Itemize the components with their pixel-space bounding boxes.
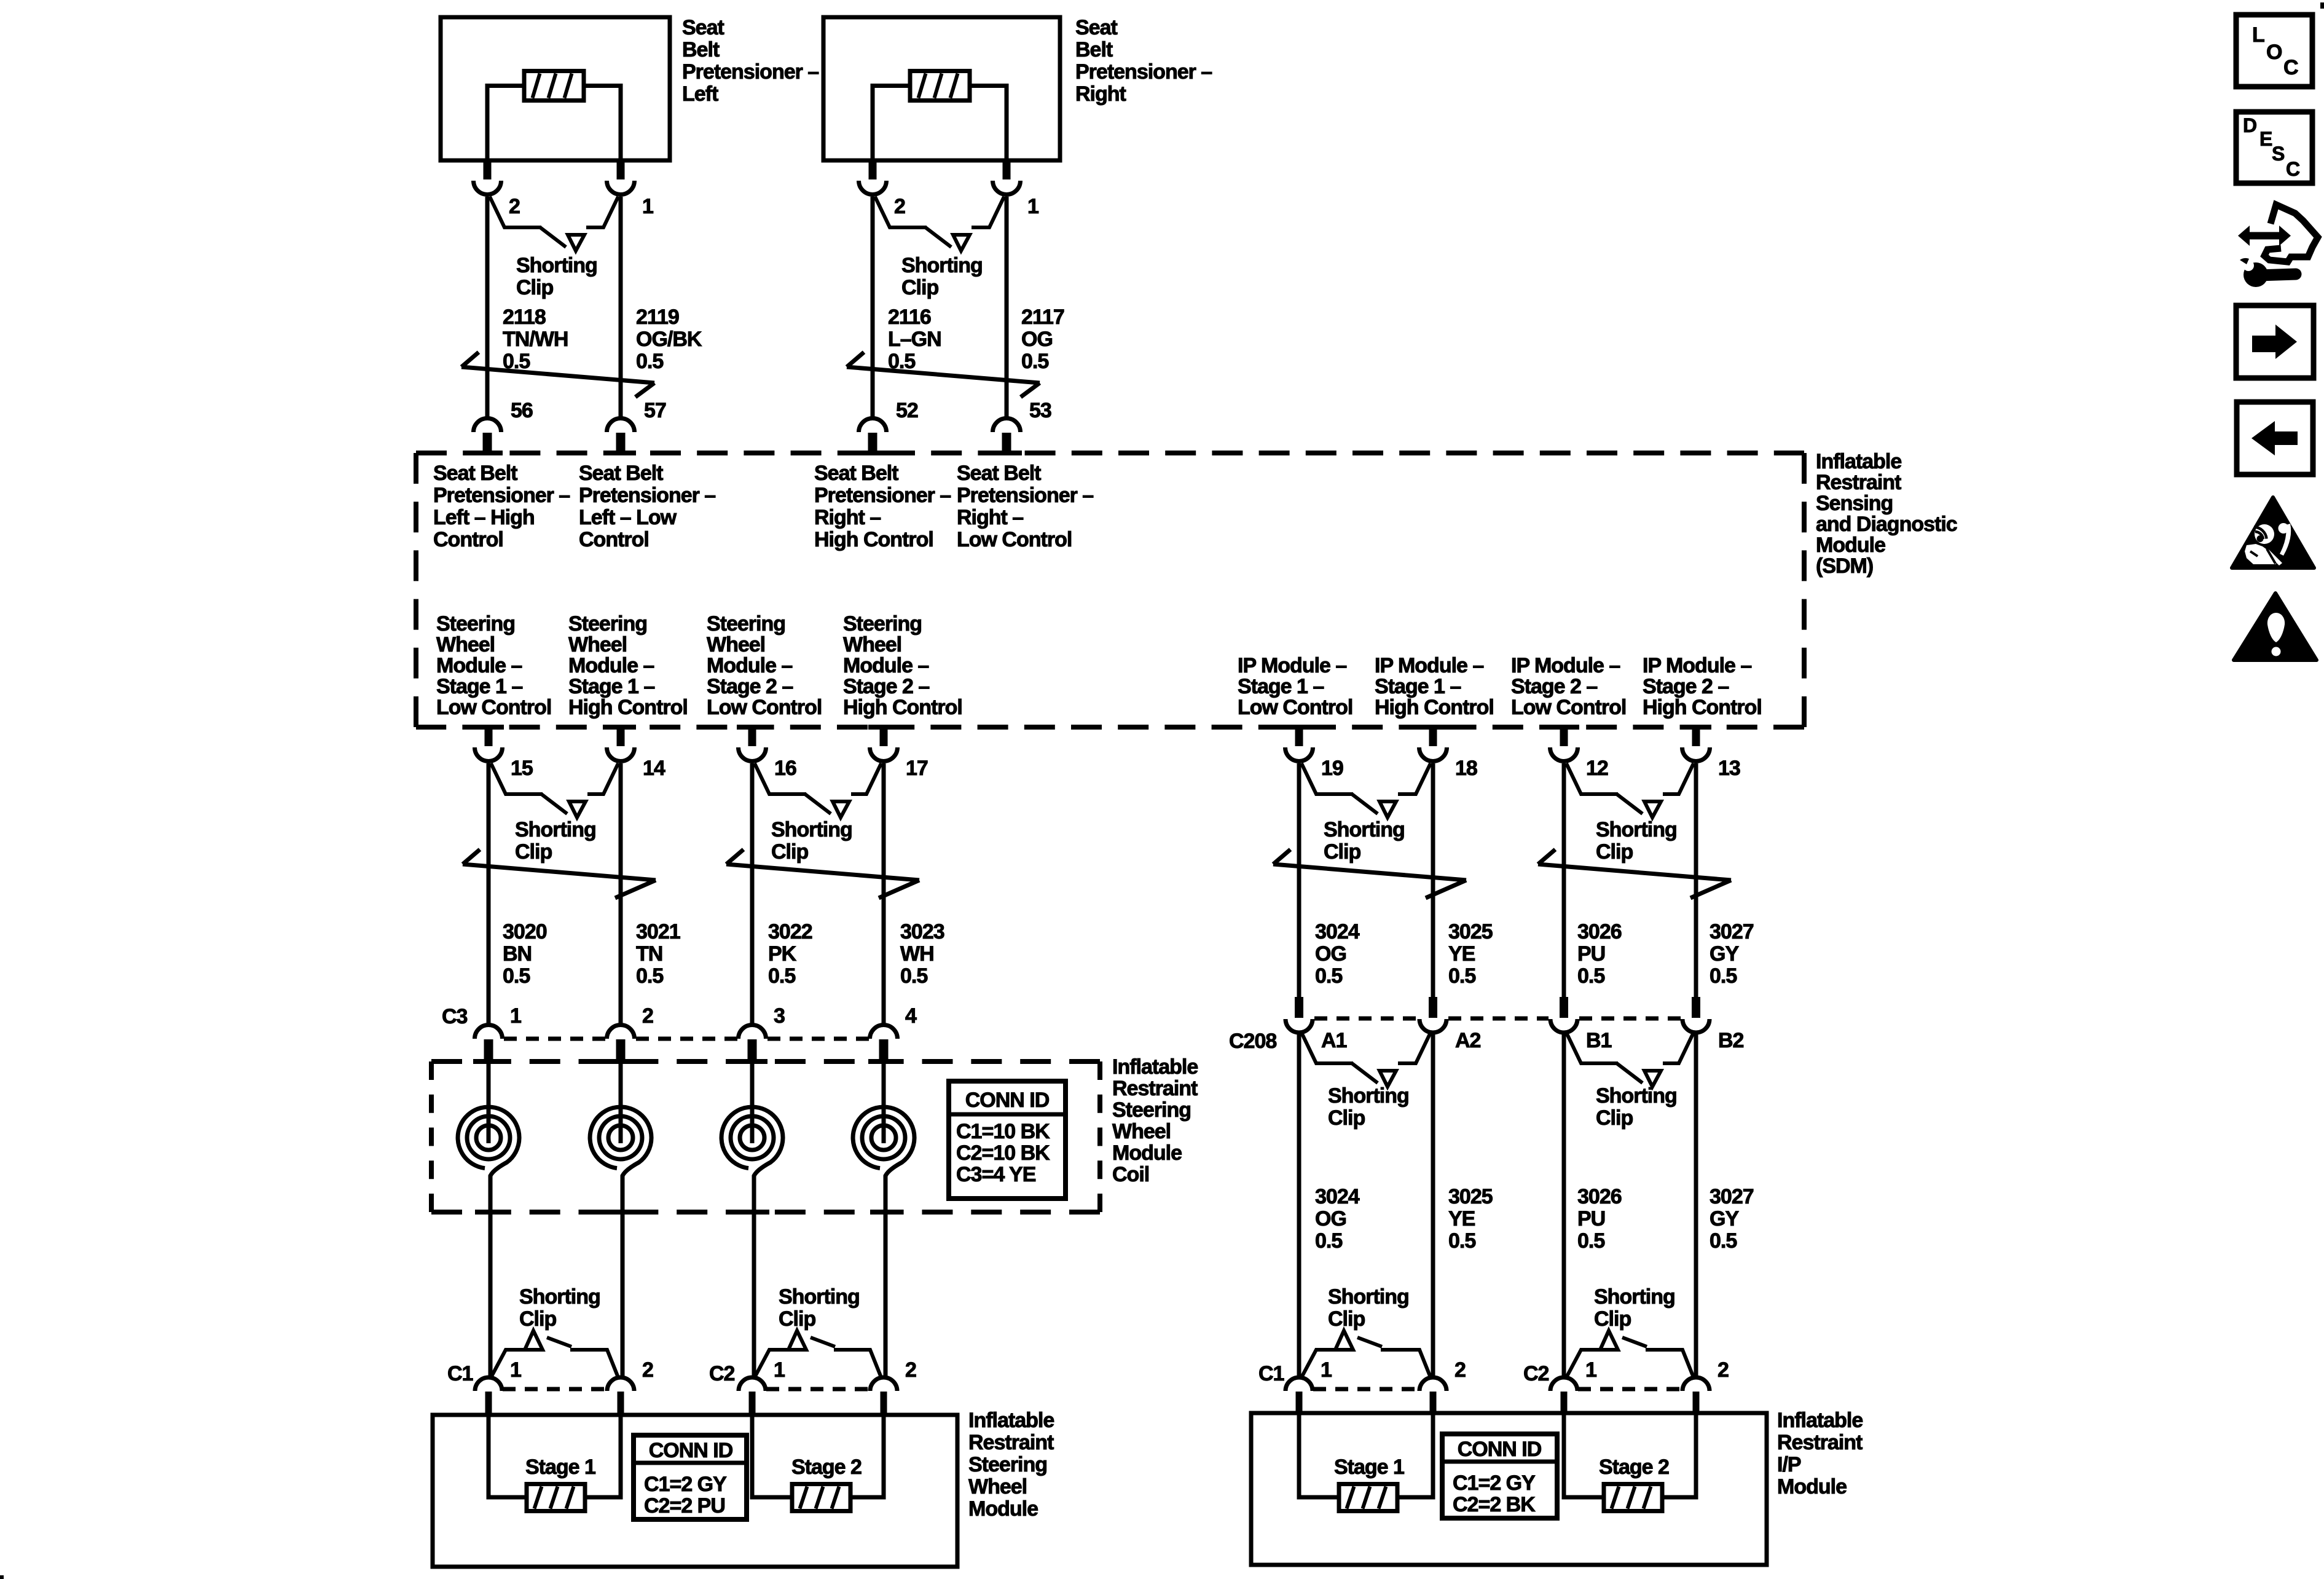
svg-text:Steering: Steering: [707, 612, 785, 636]
connector C1 face (dashed): [1313, 1387, 1419, 1392]
harness crossing mark (left pretensioner pair): [461, 367, 654, 383]
wire (C208 to IP module): [1431, 1033, 1435, 1377]
connector pin 2 (pretensioner right): [869, 160, 877, 179]
component box: Inflatable Restraint I/P Module: [1251, 1413, 1767, 1565]
svg-text:Stage 1: Stage 1: [525, 1455, 595, 1479]
wire squib-right to pin 1: [584, 86, 621, 161]
svg-text:C1: C1: [447, 1362, 473, 1385]
svg-text:4: 4: [905, 1004, 917, 1028]
svg-text:0.5: 0.5: [636, 350, 663, 373]
svg-text:IP Module –: IP Module –: [1511, 654, 1620, 677]
svg-text:Low Control: Low Control: [1511, 696, 1626, 719]
svg-text:2116: 2116: [888, 305, 931, 329]
svg-text:2: 2: [509, 195, 520, 218]
connector cavity 2 (steering wheel module): [870, 1377, 897, 1391]
shorting clip (IP C2): [1566, 1350, 1599, 1377]
connector C208 face (dashed): [1314, 1017, 1681, 1021]
svg-text:3022: 3022: [768, 920, 812, 943]
svg-text:CONN ID: CONN ID: [649, 1439, 733, 1462]
wire squib-left to pin 2 (right): [873, 86, 911, 161]
svg-text:0.5: 0.5: [503, 964, 530, 988]
svg-text:Shorting: Shorting: [519, 1285, 600, 1309]
svg-text:C2=2 PU: C2=2 PU: [644, 1494, 725, 1518]
svg-text:0.5: 0.5: [768, 964, 795, 988]
svg-text:Seat: Seat: [1075, 16, 1117, 39]
component box: Seat Belt Pretensioner - Left: [441, 17, 670, 160]
svg-text:52: 52: [896, 399, 918, 422]
svg-text:3023: 3023: [900, 920, 944, 943]
icon: airbag warning triangle: [2232, 497, 2314, 568]
module outline: Inflatable Restraint Steering Wheel Module Coil, dashed box: [431, 1061, 1100, 1212]
svg-text:Steering: Steering: [436, 612, 515, 636]
svg-text:Clip: Clip: [1328, 1106, 1365, 1130]
svg-text:Module: Module: [1777, 1475, 1847, 1498]
svg-text:Stage 1 –: Stage 1 –: [568, 675, 654, 698]
svg-text:0.5: 0.5: [1710, 1229, 1737, 1253]
icon: DTC double arrow: [2238, 226, 2291, 246]
svg-text:Left: Left: [682, 82, 718, 106]
svg-text:C1: C1: [1258, 1362, 1284, 1385]
wire (C208 to IP module): [1297, 1033, 1301, 1377]
svg-text:C: C: [2286, 158, 2300, 180]
connector pin 1 (pretensioner right): [1003, 160, 1011, 179]
wire (coil to module): [621, 1211, 625, 1377]
svg-text:1: 1: [1027, 195, 1038, 218]
svg-text:2: 2: [894, 195, 905, 218]
squib resistor (pretensioner right): [910, 71, 970, 101]
wire (C208 to IP module): [1562, 1033, 1566, 1377]
svg-text:PU: PU: [1577, 1207, 1605, 1231]
svg-text:OG/BK: OG/BK: [636, 328, 702, 351]
connector pin 18 (SDM output): [1429, 727, 1437, 746]
svg-text:Shorting: Shorting: [1594, 1285, 1675, 1309]
svg-text:CONN ID: CONN ID: [965, 1089, 1050, 1112]
svg-text:Right –: Right –: [814, 506, 881, 529]
svg-text:TN/WH: TN/WH: [503, 328, 568, 351]
clockspring coil 1: [487, 1058, 491, 1143]
svg-text:D: D: [2243, 114, 2256, 136]
svg-text:53: 53: [1029, 399, 1051, 422]
svg-text:0.5: 0.5: [1448, 964, 1475, 988]
svg-text:Belt: Belt: [1075, 38, 1113, 61]
svg-text:Module –: Module –: [707, 654, 792, 677]
svg-text:Wheel: Wheel: [1112, 1120, 1171, 1143]
svg-text:Seat: Seat: [682, 16, 724, 39]
wire Stage 2 squib to C2-2 (IP): [1662, 1413, 1696, 1497]
wire 2117 OG: [1005, 197, 1009, 417]
wire C2-1 to Stage 2 squib: [752, 1415, 792, 1497]
connector pin 56 (SDM): [474, 419, 501, 433]
svg-text:GY: GY: [1710, 1207, 1739, 1231]
svg-text:Belt: Belt: [682, 38, 720, 61]
clockspring coil 3: [750, 1058, 755, 1143]
icon: DTC wrench: [2259, 274, 2296, 275]
icon: DTC part outline: [2264, 205, 2318, 262]
svg-text:B1: B1: [1586, 1029, 1612, 1052]
connector pin 53 (SDM): [993, 419, 1021, 433]
svg-text:3027: 3027: [1710, 920, 1754, 943]
squib: Stage 2 (IP module): [1604, 1484, 1662, 1511]
svg-text:0.5: 0.5: [900, 964, 927, 988]
wire squib-right to pin 1 (right): [969, 86, 1007, 161]
wire (SDM output): [1694, 763, 1698, 997]
shorting clip (pretensioner right): [875, 197, 927, 227]
svg-text:Shorting: Shorting: [1596, 1084, 1677, 1108]
svg-text:Restraint: Restraint: [1816, 471, 1901, 494]
clockspring coil 2: [619, 1058, 623, 1143]
connector C2 face (dashed): [1578, 1387, 1682, 1392]
svg-text:OG: OG: [1315, 1207, 1346, 1231]
svg-text:0.5: 0.5: [1710, 964, 1737, 988]
svg-text:GY: GY: [1710, 942, 1739, 966]
svg-text:0.5: 0.5: [1021, 350, 1048, 373]
wire (coil to module): [884, 1211, 888, 1377]
svg-text:Clip: Clip: [515, 840, 552, 864]
svg-text:57: 57: [644, 399, 666, 422]
svg-text:Low Control: Low Control: [1238, 696, 1352, 719]
svg-text:Pretensioner –: Pretensioner –: [579, 484, 715, 507]
svg-text:C1=2 GY: C1=2 GY: [1453, 1471, 1536, 1495]
wire (SDM output): [487, 763, 491, 1024]
svg-text:Wheel: Wheel: [707, 633, 765, 656]
connector C208 cavity A2: [1429, 997, 1437, 1018]
svg-text:C3: C3: [442, 1005, 468, 1028]
svg-text:13: 13: [1718, 757, 1740, 780]
svg-text:Low Control: Low Control: [707, 696, 822, 719]
svg-text:Shorting: Shorting: [516, 254, 597, 277]
svg-text:0.5: 0.5: [1577, 964, 1604, 988]
svg-text:3025: 3025: [1448, 1185, 1493, 1208]
svg-text:C1=10 BK: C1=10 BK: [956, 1120, 1050, 1143]
svg-text:Seat Belt: Seat Belt: [814, 462, 898, 485]
svg-text:IP Module –: IP Module –: [1238, 654, 1346, 677]
svg-text:Shorting: Shorting: [515, 818, 596, 841]
svg-text:18: 18: [1455, 757, 1477, 780]
svg-text:Inflatable: Inflatable: [968, 1409, 1054, 1432]
connector cavity 2 (IP module): [1682, 1377, 1710, 1391]
connector pin 2 (pretensioner left): [484, 160, 492, 179]
connector cavity 1 (IP module): [1286, 1377, 1313, 1391]
svg-text:Clip: Clip: [516, 276, 553, 299]
icon: caution warning triangle: [2234, 593, 2317, 660]
wire 2118 TN/WH: [485, 197, 490, 417]
svg-text:3020: 3020: [503, 920, 547, 943]
connector pin 12 (SDM output): [1560, 727, 1568, 746]
wire (C208 to IP module): [1694, 1033, 1698, 1377]
svg-text:Control: Control: [433, 528, 503, 551]
page corner mark top-right: [2320, 2, 2324, 9]
squib: Stage 1 (steering wheel module): [527, 1484, 585, 1511]
svg-text:16: 16: [774, 757, 796, 780]
svg-text:C2: C2: [1523, 1362, 1549, 1385]
shorting clip (below SDM): [755, 763, 806, 794]
svg-text:Stage 2: Stage 2: [791, 1455, 862, 1479]
connector cavity 2 (steering wheel module): [607, 1377, 634, 1391]
svg-text:I/P: I/P: [1777, 1453, 1801, 1476]
connector C3 cavity 2: [607, 1025, 635, 1039]
svg-text:2: 2: [1454, 1358, 1466, 1382]
connector pin 17 (SDM output): [880, 727, 888, 746]
wire Stage 1 squib to C1-2: [585, 1415, 621, 1497]
harness crossing mark (right pretensioner pair): [847, 367, 1040, 383]
wire (SDM output): [1562, 763, 1566, 997]
svg-text:Low Control: Low Control: [436, 696, 551, 719]
connector C3 face (dotted line): [504, 1037, 869, 1041]
wire Stage 1 squib to C1-2 (IP): [1397, 1413, 1433, 1497]
svg-text:Clip: Clip: [771, 840, 808, 864]
svg-text:PK: PK: [768, 942, 797, 966]
icon: back arrow box: [2237, 402, 2313, 474]
page corner mark bottom-left: [0, 1575, 4, 1579]
svg-text:and Diagnostic: and Diagnostic: [1816, 513, 1957, 536]
squib resistor (pretensioner left): [524, 71, 584, 101]
connector pin 16 (SDM output): [748, 727, 756, 746]
wire (coil to module): [752, 1211, 756, 1377]
svg-text:14: 14: [643, 757, 665, 780]
connector C3 cavity 3: [739, 1025, 766, 1039]
svg-text:Pretensioner –: Pretensioner –: [433, 484, 570, 507]
icon: DESC box: [2236, 112, 2312, 183]
connector C208 cavity B2: [1692, 997, 1700, 1018]
connector pin 13 (SDM output): [1692, 727, 1700, 746]
svg-text:BN: BN: [503, 942, 532, 966]
connector cavity 1 (steering wheel module): [739, 1377, 766, 1391]
svg-text:Coil: Coil: [1112, 1163, 1149, 1186]
svg-text:C2=10 BK: C2=10 BK: [956, 1141, 1050, 1165]
svg-text:Clip: Clip: [1594, 1307, 1631, 1331]
svg-text:TN: TN: [636, 942, 662, 966]
svg-text:Steering: Steering: [1112, 1098, 1191, 1122]
svg-text:Shorting: Shorting: [1328, 1285, 1409, 1309]
icon: LOC box: [2236, 15, 2312, 87]
svg-text:OG: OG: [1315, 942, 1346, 966]
svg-text:High Control: High Control: [814, 528, 933, 551]
harness crossing mark: [1538, 864, 1731, 880]
svg-text:Module: Module: [968, 1497, 1038, 1521]
svg-text:Wheel: Wheel: [843, 633, 901, 656]
component box: Seat Belt Pretensioner - Right: [823, 17, 1060, 160]
svg-text:19: 19: [1321, 757, 1343, 780]
svg-text:S: S: [2272, 143, 2285, 165]
svg-text:IP Module –: IP Module –: [1643, 654, 1751, 677]
svg-text:C: C: [2283, 56, 2298, 79]
svg-text:3026: 3026: [1577, 1185, 1622, 1208]
svg-text:2: 2: [642, 1004, 653, 1028]
svg-text:Control: Control: [579, 528, 649, 551]
shorting clip (SWM C1): [491, 1350, 524, 1377]
svg-text:0.5: 0.5: [636, 964, 663, 988]
svg-text:Steering: Steering: [843, 612, 922, 636]
svg-text:1: 1: [774, 1358, 785, 1382]
svg-text:2: 2: [905, 1358, 916, 1382]
svg-text:YE: YE: [1448, 1207, 1475, 1231]
svg-text:C1=2 GY: C1=2 GY: [644, 1473, 727, 1496]
svg-text:17: 17: [906, 757, 928, 780]
svg-text:2: 2: [1717, 1358, 1729, 1382]
svg-text:3025: 3025: [1448, 920, 1493, 943]
svg-text:Stage 2 –: Stage 2 –: [1643, 675, 1729, 698]
connector cavity 2 (IP module): [1419, 1377, 1447, 1391]
shorting clip (below SDM): [1566, 763, 1618, 794]
CONN ID table (coil): [949, 1081, 1066, 1199]
svg-text:Stage 1: Stage 1: [1334, 1455, 1404, 1479]
harness crossing mark: [1273, 864, 1466, 880]
svg-text:1: 1: [510, 1358, 521, 1382]
svg-text:1: 1: [1585, 1358, 1596, 1382]
svg-text:Stage 2: Stage 2: [1599, 1455, 1669, 1479]
wire squib-left to pin 2: [487, 86, 524, 161]
svg-text:C2=2 BK: C2=2 BK: [1453, 1493, 1536, 1516]
svg-text:O: O: [2266, 41, 2282, 64]
svg-text:3027: 3027: [1710, 1185, 1754, 1208]
module outline: Inflatable Restraint Sensing and Diagnostic Module (SDM), dashed box: [416, 453, 1804, 727]
svg-text:OG: OG: [1021, 328, 1053, 351]
svg-text:Shorting: Shorting: [901, 254, 983, 277]
svg-text:1: 1: [642, 195, 653, 218]
svg-text:High Control: High Control: [843, 696, 962, 719]
CONN ID table (steering wheel module): [634, 1435, 747, 1519]
svg-text:3021: 3021: [636, 920, 680, 943]
CONN ID table (IP module): [1442, 1434, 1557, 1518]
connector C2 face (dashed): [766, 1387, 870, 1392]
svg-text:Wheel: Wheel: [436, 633, 495, 656]
wire (SDM output): [1297, 763, 1301, 997]
connector C1 face (dashed): [503, 1387, 607, 1392]
svg-text:Right: Right: [1075, 82, 1126, 106]
svg-text:CONN ID: CONN ID: [1458, 1438, 1542, 1461]
svg-text:Left – High: Left – High: [433, 506, 535, 529]
svg-text:1: 1: [1321, 1358, 1332, 1382]
connector C208 cavity A1: [1295, 997, 1303, 1018]
svg-text:High Control: High Control: [1643, 696, 1762, 719]
svg-text:Clip: Clip: [1324, 840, 1360, 864]
svg-text:Shorting: Shorting: [779, 1285, 860, 1309]
connector cavity 1 (IP module): [1550, 1377, 1577, 1391]
svg-text:PU: PU: [1577, 942, 1605, 966]
svg-text:WH: WH: [900, 942, 934, 966]
svg-text:Sensing: Sensing: [1816, 492, 1893, 515]
connector pin 15 (SDM output): [485, 727, 493, 746]
svg-text:0.5: 0.5: [1448, 1229, 1475, 1253]
harness crossing mark: [463, 864, 656, 880]
svg-text:Clip: Clip: [1596, 1106, 1633, 1130]
svg-text:Inflatable: Inflatable: [1816, 450, 1901, 473]
svg-text:56: 56: [511, 399, 533, 422]
svg-text:Stage 2 –: Stage 2 –: [843, 675, 929, 698]
wire 2119 OG/BK: [619, 197, 623, 417]
svg-text:Shorting: Shorting: [1328, 1084, 1409, 1108]
svg-text:Seat Belt: Seat Belt: [579, 462, 663, 485]
svg-text:0.5: 0.5: [1315, 964, 1342, 988]
svg-text:Steering: Steering: [568, 612, 647, 636]
svg-text:Shorting: Shorting: [1596, 818, 1677, 841]
coil box dashes at wire crossings: [473, 1059, 504, 1064]
wire 2116 L-GN: [871, 197, 875, 417]
wire C2-1 to Stage 2 squib (IP): [1564, 1413, 1604, 1497]
svg-text:2117: 2117: [1021, 305, 1064, 329]
wire (SDM output): [1431, 763, 1435, 997]
svg-text:2118: 2118: [503, 305, 546, 329]
connector C3 cavity 1: [475, 1025, 503, 1039]
icon: forward arrow box: [2236, 305, 2314, 378]
svg-text:Stage 2 –: Stage 2 –: [707, 675, 793, 698]
svg-text:Clip: Clip: [901, 276, 938, 299]
svg-text:Pretensioner –: Pretensioner –: [814, 484, 951, 507]
svg-text:Seat Belt: Seat Belt: [433, 462, 517, 485]
svg-text:Wheel: Wheel: [568, 633, 627, 656]
connector cavity 1 (steering wheel module): [475, 1377, 502, 1391]
svg-text:0.5: 0.5: [1315, 1229, 1342, 1253]
shorting clip (pretensioner left): [490, 197, 541, 227]
shorting clip (IP C1): [1301, 1350, 1334, 1377]
component box: Inflatable Restraint Steering Wheel Module: [433, 1415, 957, 1567]
svg-text:Stage 1 –: Stage 1 –: [436, 675, 522, 698]
svg-text:A2: A2: [1455, 1029, 1481, 1052]
clockspring coil 4: [882, 1058, 886, 1143]
svg-text:Wheel: Wheel: [968, 1475, 1027, 1498]
svg-text:Pretensioner –: Pretensioner –: [957, 484, 1093, 507]
svg-text:IP Module –: IP Module –: [1375, 654, 1483, 677]
svg-text:3026: 3026: [1577, 920, 1622, 943]
svg-text:YE: YE: [1448, 942, 1475, 966]
connector C208 cavity B1: [1560, 997, 1568, 1018]
svg-text:Module –: Module –: [568, 654, 654, 677]
svg-text:Right –: Right –: [957, 506, 1023, 529]
squib: Stage 1 (IP module): [1339, 1484, 1397, 1511]
wire (SDM output): [882, 763, 886, 1024]
shorting clip (C208 A): [1301, 1033, 1353, 1063]
svg-text:Pretensioner –: Pretensioner –: [1075, 60, 1212, 84]
wire C1-1 to Stage 1 squib (IP): [1299, 1413, 1339, 1497]
svg-text:Stage 1 –: Stage 1 –: [1238, 675, 1324, 698]
shorting clip (C208 B): [1566, 1033, 1618, 1063]
svg-text:2: 2: [642, 1358, 653, 1382]
wire (coil to module): [489, 1211, 493, 1377]
svg-text:Restraint: Restraint: [968, 1431, 1054, 1454]
svg-text:A1: A1: [1321, 1029, 1347, 1052]
SDM box dashes at pin crossings: [472, 451, 503, 455]
svg-text:Module: Module: [1112, 1141, 1182, 1165]
svg-text:Shorting: Shorting: [771, 818, 852, 841]
svg-text:Seat Belt: Seat Belt: [957, 462, 1041, 485]
svg-text:Module –: Module –: [843, 654, 928, 677]
connector pin 14 (SDM output): [617, 727, 625, 746]
svg-text:(SDM): (SDM): [1816, 554, 1873, 578]
shorting clip (below SDM): [1301, 763, 1353, 794]
svg-text:1: 1: [510, 1004, 521, 1028]
svg-text:2119: 2119: [636, 305, 679, 329]
shorting clip (below SDM): [491, 763, 543, 794]
svg-text:Shorting: Shorting: [1324, 818, 1405, 841]
svg-text:Low Control: Low Control: [957, 528, 1072, 551]
wire C1-1 to Stage 1 squib: [489, 1415, 527, 1497]
svg-text:Stage 1 –: Stage 1 –: [1375, 675, 1461, 698]
svg-text:15: 15: [511, 757, 533, 780]
svg-text:Inflatable: Inflatable: [1777, 1409, 1863, 1432]
svg-text:Steering: Steering: [968, 1453, 1047, 1476]
squib: Stage 2 (steering wheel module): [792, 1484, 850, 1511]
shorting clip (SWM C2): [755, 1350, 787, 1377]
connector pin 19 (SDM output): [1295, 727, 1303, 746]
svg-text:3024: 3024: [1315, 920, 1360, 943]
svg-text:Restraint: Restraint: [1777, 1431, 1863, 1454]
harness crossing mark: [726, 864, 919, 880]
svg-text:High Control: High Control: [568, 696, 688, 719]
svg-text:Stage 2 –: Stage 2 –: [1511, 675, 1597, 698]
svg-text:C208: C208: [1229, 1030, 1276, 1053]
svg-text:3024: 3024: [1315, 1185, 1360, 1208]
svg-text:High Control: High Control: [1375, 696, 1494, 719]
